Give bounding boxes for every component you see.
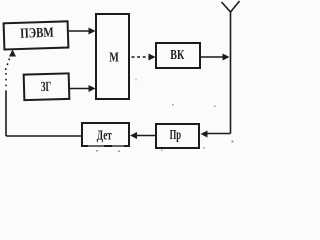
svg-text:ВК: ВК [170,48,185,63]
svg-text:Пр: Пр [170,128,182,143]
svg-text:М: М [109,51,119,66]
svg-text:ЗГ: ЗГ [41,80,52,95]
svg-text:ПЭВМ: ПЭВМ [20,26,54,42]
svg-text:Дет: Дет [97,129,112,144]
